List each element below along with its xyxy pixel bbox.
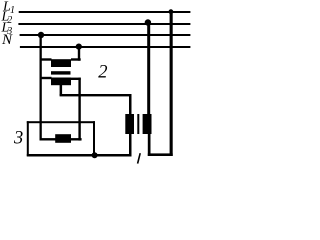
svg-text:3: 3 [13, 129, 23, 149]
svg-text:2: 2 [98, 63, 107, 83]
svg-text:N: N [1, 32, 13, 48]
